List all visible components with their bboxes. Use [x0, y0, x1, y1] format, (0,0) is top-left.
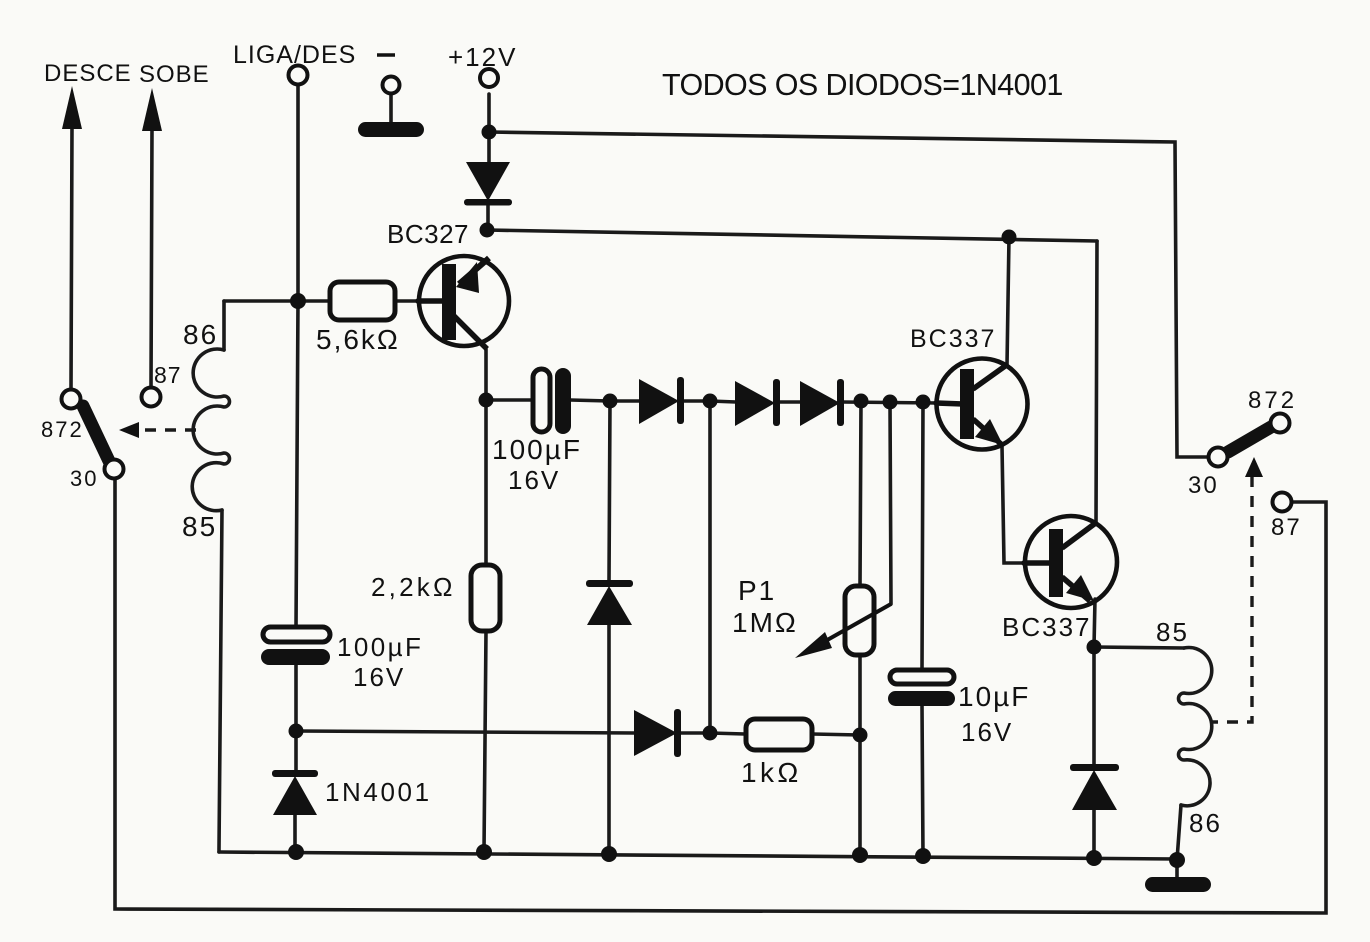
wire node down to bottom-right diode: [1092, 647, 1096, 766]
wire node down to 1N4001: [294, 731, 298, 772]
node BC337 no.1 collector rail: [1002, 230, 1017, 245]
svg-text:87: 87: [1271, 514, 1302, 541]
wire node down to P1 wiper arrow: [890, 402, 891, 604]
wire 1k resistor to node: [812, 734, 860, 735]
capacitor 10uF: [888, 670, 955, 706]
wire top rail A from +12V junction to right corner then down to right switch 30: [489, 132, 1209, 457]
wire node to 1k resistor: [710, 733, 745, 734]
wire cap node to 100uF series cap: [486, 398, 535, 402]
wire P1 bottom to node: [858, 655, 862, 735]
relay coil 2 (right, bumps right): [1179, 647, 1212, 805]
terminal 87 left: [142, 388, 161, 407]
wire BC337 no.1 collector up to rail B junction: [1007, 237, 1009, 365]
switch arm left (872-30): [83, 406, 109, 461]
wire node to relay coil 2 top: [1094, 647, 1184, 648]
wire node down to lower horizontal node: [708, 401, 712, 733]
node BC337 no.2 emitter: [1087, 640, 1102, 655]
wire 100uF cap left to node: [294, 665, 298, 731]
svg-text:BC337: BC337: [1002, 612, 1092, 642]
wire SOBE arrow shaft: [151, 128, 152, 388]
svg-text:85: 85: [182, 511, 217, 542]
wire BC337 no.1 emitter down then right to BC337 no.2 base: [1002, 446, 1026, 563]
rail node 1: [288, 844, 304, 860]
svg-text:10µF: 10µF: [958, 681, 1030, 712]
wire node down to ground rail: [858, 735, 862, 855]
rail node 2: [476, 844, 492, 860]
node +12V rail: [482, 125, 497, 140]
node BC327 emitter rail: [480, 223, 495, 238]
ground symbol bottom right: [1145, 877, 1211, 892]
node P1 top: [854, 394, 869, 409]
wire ground rail node to ground symbol: [1175, 860, 1179, 878]
wire D3 to BC337 no.1 base: [842, 402, 938, 403]
arrowhead SOBE: [142, 88, 162, 131]
terminal minus: [383, 77, 400, 94]
svg-text:+12V: +12V: [448, 42, 517, 72]
wire node down to 100uF cap left: [296, 301, 298, 628]
terminal 87 right: [1273, 493, 1292, 512]
dashed actuation arrow left: [140, 428, 196, 431]
wire D1 to node: [683, 399, 710, 403]
diode 1N4001 (left, pointing up): [272, 770, 318, 815]
wire right 87 terminal to right border down and along bottom to left switch: [115, 478, 1326, 913]
diode D1 (pointing right): [639, 377, 684, 424]
resistor 5,6k: [330, 282, 395, 320]
wire minus terminal to bar: [389, 94, 393, 123]
wire BC327 collector down to cap node: [484, 349, 488, 400]
wire 100uF series cap to node: [570, 400, 610, 401]
node 100uF left bottom: [289, 724, 304, 739]
switch arm right (30-872): [1228, 427, 1271, 452]
wire relay coil 1 bottom down to ground rail corner: [219, 510, 222, 852]
diode D2 (pointing right): [735, 379, 780, 426]
wire DESCE arrow shaft: [71, 126, 72, 390]
terminal 30 left: [105, 460, 124, 479]
terminal 872 right: [1271, 414, 1290, 433]
wire corner down to relay coil 1: [222, 301, 226, 350]
terminal 30 right: [1209, 448, 1228, 467]
node LIGA/DES base: [290, 293, 306, 309]
node after series cap: [603, 394, 618, 409]
diode from +12V (pointing down): [464, 162, 512, 206]
dashed actuation arrow right: [1210, 476, 1252, 722]
svg-text:100µF: 100µF: [492, 434, 582, 465]
svg-text:16V: 16V: [961, 717, 1013, 747]
wire top diode to BC327 emitter node: [486, 205, 490, 230]
wire node to diode D2: [710, 401, 736, 402]
svg-text:P1: P1: [738, 575, 776, 606]
capacitor 100uF series (left plate outline, right plate solid): [533, 368, 571, 434]
svg-text:SOBE: SOBE: [139, 61, 210, 88]
wire node down mid-left diode top: [609, 401, 610, 581]
node after D1: [703, 394, 718, 409]
wire node P1 top: [860, 401, 861, 586]
diode mid (vertical, pointing up): [586, 580, 633, 625]
wire relay coil 2 bottom to ground rail: [1177, 805, 1181, 860]
svg-text:DESCE: DESCE: [44, 60, 132, 87]
terminal LIGA/DES: [289, 66, 308, 85]
wire diode to node: [680, 731, 710, 735]
transistor BC327 U1: [419, 256, 509, 349]
svg-text:87: 87: [154, 362, 182, 388]
svg-text:85: 85: [1156, 617, 1189, 647]
wire +12V junction to top diode: [487, 132, 491, 163]
arrowhead DESCE: [62, 86, 82, 129]
svg-text:86: 86: [1189, 808, 1222, 838]
wire rail B from BC327 emitter node to right corner: [487, 230, 1097, 241]
node diode-1k: [703, 726, 718, 741]
transistor BC337 U2 (top right): [937, 359, 1028, 450]
node cap left: [479, 393, 494, 408]
resistor 1k: [746, 719, 812, 750]
resistor 2,2k: [471, 565, 500, 631]
wire LIGA/DES down to node: [296, 85, 300, 301]
diode right bottom (pointing up): [1070, 764, 1119, 810]
relay coil 1 (left, bumps left): [192, 349, 229, 511]
node 1k right: [853, 728, 868, 743]
svg-text:5,6kΩ: 5,6kΩ: [316, 324, 400, 355]
wire bottom ground rail: [219, 852, 1177, 859]
wire mid-left diode to ground rail: [607, 624, 611, 855]
svg-text:16V: 16V: [508, 465, 560, 495]
svg-text:1N4001: 1N4001: [325, 777, 432, 807]
rail node 3: [601, 846, 617, 862]
wire left horizontal to 5,6k resistor: [224, 299, 328, 303]
terminal 872 left: [62, 390, 81, 409]
svg-text:LIGA/DES: LIGA/DES: [233, 41, 356, 69]
svg-text:100µF: 100µF: [337, 632, 423, 662]
diode before 1k (pointing right): [634, 709, 681, 757]
node 10uF top: [916, 395, 931, 410]
diode D3 (pointing right): [800, 379, 844, 426]
wire 5,6k resistor to BC327 base: [396, 299, 420, 303]
rail node 6: [1086, 850, 1102, 866]
wire D2 to D3: [779, 400, 801, 404]
rail node 4: [852, 847, 868, 863]
wire lower horizontal from node to diode: [296, 731, 635, 733]
transistor BC337 U3 (lower right): [1025, 516, 1117, 608]
wire +12V down to top rail: [487, 94, 491, 132]
svg-text:16V: 16V: [353, 662, 405, 692]
terminal +12V: [480, 69, 498, 87]
rail node 5: [915, 848, 931, 864]
wire 10uF cap down to ground rail: [922, 705, 923, 857]
svg-text:86: 86: [183, 319, 218, 350]
wire 1N4001 to ground rail: [293, 814, 297, 852]
svg-text:BC337: BC337: [910, 325, 996, 353]
svg-text:872: 872: [41, 417, 84, 442]
wire node to diode D1: [610, 399, 640, 403]
svg-text:1kΩ: 1kΩ: [741, 757, 802, 788]
chassis bar under minus terminal: [358, 122, 424, 137]
wire rail B corner down to BC337 no.2 collector: [1096, 241, 1097, 523]
node wiper top: [883, 395, 898, 410]
capacitor 100uF (left, horizontal plates): [261, 627, 330, 665]
svg-text:872: 872: [1248, 387, 1297, 414]
wire 2,2k resistor down to ground rail: [484, 631, 486, 852]
wire node down to 10uF cap: [922, 402, 923, 671]
svg-text:30: 30: [70, 466, 98, 491]
svg-text:30: 30: [1188, 472, 1219, 499]
wire bottom-right diode to ground rail: [1092, 809, 1096, 859]
svg-text:TODOS OS DIODOS=1N4001: TODOS OS DIODOS=1N4001: [662, 68, 1063, 102]
minus sign: [377, 53, 395, 57]
potentiometer P1: [795, 586, 891, 658]
svg-text:BC327: BC327: [387, 219, 469, 249]
svg-text:2,2kΩ: 2,2kΩ: [371, 572, 456, 602]
wire cap node down to 2,2k resistor: [484, 400, 488, 565]
svg-text:1MΩ: 1MΩ: [732, 607, 798, 638]
wire BC337 no.2 emitter down to node: [1094, 599, 1095, 647]
rail node 7: [1169, 852, 1185, 868]
